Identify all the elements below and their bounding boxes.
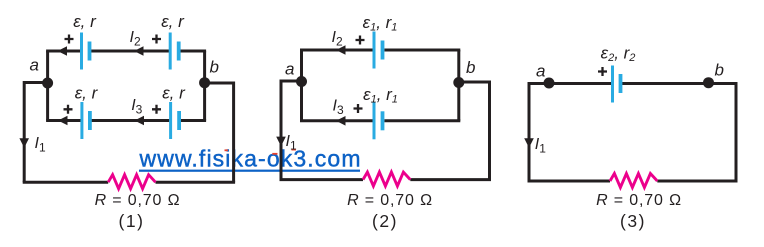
svg-text:R = 0,70 Ω: R = 0,70 Ω: [596, 192, 682, 209]
svg-text:I1: I1: [35, 135, 46, 155]
svg-text:I3: I3: [333, 97, 344, 117]
svg-text:I1: I1: [286, 133, 297, 153]
svg-text:a: a: [536, 61, 545, 80]
svg-text:b: b: [466, 58, 475, 77]
svg-text:ε, r: ε, r: [161, 12, 185, 31]
svg-text:R = 0,70 Ω: R = 0,70 Ω: [95, 192, 181, 209]
svg-text:(3): (3): [620, 211, 646, 231]
svg-text:a: a: [285, 60, 294, 79]
svg-text:ε, r: ε, r: [75, 84, 99, 103]
svg-text:ε1, r1: ε1, r1: [363, 13, 398, 33]
svg-text:ε1, r1: ε1, r1: [363, 85, 398, 105]
svg-text:(2): (2): [372, 211, 398, 231]
svg-text:I2: I2: [332, 29, 343, 49]
svg-text:b: b: [210, 58, 219, 77]
svg-text:ε, r: ε, r: [162, 84, 186, 103]
svg-text:I2: I2: [130, 29, 141, 49]
svg-text:I3: I3: [131, 97, 142, 117]
svg-text:ε, r: ε, r: [73, 12, 97, 31]
svg-text:I1: I1: [535, 136, 546, 156]
svg-text:a: a: [30, 56, 39, 75]
svg-text:ε2, r2: ε2, r2: [601, 44, 636, 64]
svg-text:(1): (1): [119, 211, 145, 231]
svg-text:R = 0,70 Ω: R = 0,70 Ω: [347, 192, 433, 209]
svg-text:b: b: [715, 61, 724, 80]
svg-text:www.fisika-ok3.com: www.fisika-ok3.com: [139, 145, 362, 171]
